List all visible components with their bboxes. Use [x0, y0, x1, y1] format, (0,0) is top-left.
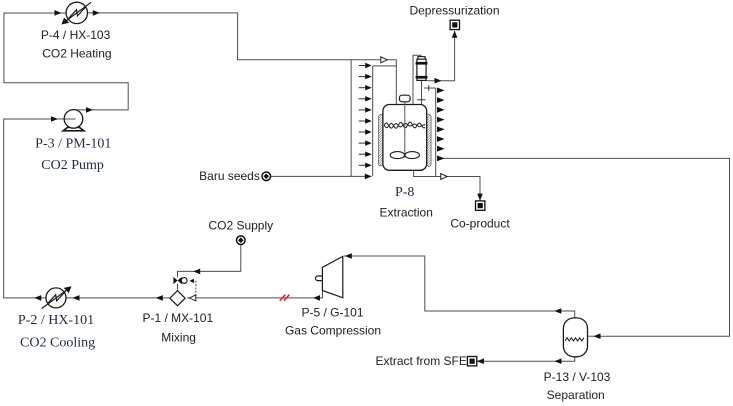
svg-text:P-3 / PM-101: P-3 / PM-101	[35, 136, 111, 151]
svg-text:Extraction: Extraction	[380, 205, 433, 219]
svg-text:P-13 / V-103: P-13 / V-103	[544, 370, 611, 384]
svg-text:Mixing: Mixing	[161, 330, 196, 344]
svg-text:P-4 / HX-103: P-4 / HX-103	[41, 28, 111, 42]
svg-text:P-2 / HX-101: P-2 / HX-101	[18, 313, 94, 328]
svg-text:P-8: P-8	[395, 185, 414, 200]
svg-text:CO2 Supply: CO2 Supply	[208, 219, 273, 233]
svg-text:P-1 / MX-101: P-1 / MX-101	[142, 311, 213, 325]
svg-text:CO2 Pump: CO2 Pump	[41, 158, 104, 173]
svg-text:Separation: Separation	[547, 388, 605, 402]
svg-text:Co-product: Co-product	[450, 216, 510, 230]
svg-text:P-5 / G-101: P-5 / G-101	[301, 306, 363, 320]
svg-text:Gas Compression: Gas Compression	[285, 324, 381, 338]
svg-text:Baru seeds: Baru seeds	[199, 169, 260, 183]
svg-text:CO2 Cooling: CO2 Cooling	[20, 335, 95, 350]
svg-text:Depressurization: Depressurization	[409, 3, 499, 17]
svg-text:Extract from SFE: Extract from SFE	[376, 354, 467, 368]
svg-text:CO2 Heating: CO2 Heating	[42, 47, 111, 61]
